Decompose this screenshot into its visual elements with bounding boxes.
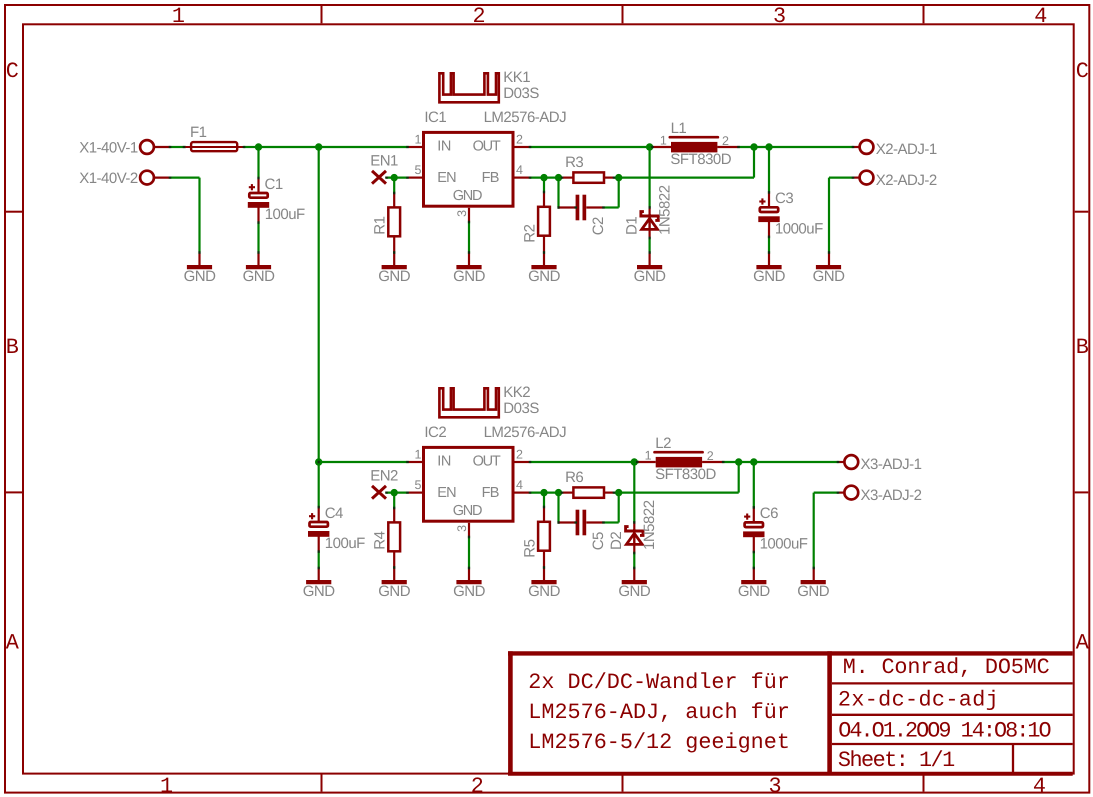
wire input rail — [259, 146, 408, 148]
svg-text:SFT830D: SFT830D — [670, 151, 731, 168]
ground GND (D2) — [633, 568, 635, 580]
inductor L2 SFT830D — [637, 461, 655, 463]
wire C4 to GND — [318, 552, 320, 568]
svg-text:X3-ADJ-1: X3-ADJ-1 — [861, 456, 922, 473]
svg-text:2: 2 — [472, 4, 485, 29]
capacitor C6 1000uF — [753, 462, 755, 507]
svg-text:LM2576-ADJ, auch für: LM2576-ADJ, auch für — [528, 700, 790, 725]
svg-text:X2-ADJ-1: X2-ADJ-1 — [876, 141, 937, 158]
svg-text:1: 1 — [660, 133, 667, 147]
connector X2-ADJ-1 — [853, 146, 860, 148]
frame row ticks right — [1075, 211, 1089, 213]
fuse F1 — [191, 142, 237, 151]
junction node EN2/R4 — [391, 489, 398, 496]
svg-text:C6: C6 — [760, 505, 778, 522]
svg-text:D1: D1 — [623, 217, 640, 235]
svg-text:2: 2 — [516, 133, 523, 147]
ground GND (C3) — [768, 253, 770, 265]
svg-text:2x DC/DC-Wandler für: 2x DC/DC-Wandler für — [528, 670, 790, 695]
svg-text:3: 3 — [768, 774, 781, 797]
svg-text:X1-40V-1: X1-40V-1 — [79, 139, 138, 156]
svg-text:R3: R3 — [565, 154, 583, 171]
svg-text:O4.O1.2OO9 14:O8:1O: O4.O1.2OO9 14:O8:1O — [838, 719, 1050, 744]
svg-text:GND: GND — [243, 268, 276, 285]
svg-text:R1: R1 — [371, 216, 388, 234]
frame row ticks left — [6, 211, 22, 213]
wire C3 to GND — [768, 237, 770, 253]
ground GND (X2-ADJ-2) — [828, 253, 830, 265]
junction node lower feed — [315, 458, 322, 465]
junction node EN1/R1 — [391, 174, 398, 181]
wire F1 to node — [244, 146, 259, 148]
resistor R2 — [543, 178, 545, 192]
svg-text:LM2576-ADJ: LM2576-ADJ — [484, 424, 567, 441]
svg-text:R6: R6 — [565, 469, 583, 486]
inductor L1 SFT830D — [653, 146, 672, 148]
svg-text:2: 2 — [471, 774, 484, 797]
svg-text:R2: R2 — [521, 224, 538, 242]
frame column ticks bottom — [321, 775, 323, 792]
svg-text:D03S: D03S — [503, 85, 539, 102]
wire OUT rail — [515, 146, 531, 148]
svg-text:GND: GND — [453, 583, 486, 600]
svg-text:1000uF: 1000uF — [760, 536, 808, 553]
wire X3-ADJ-2 to GND — [814, 492, 838, 494]
svg-text:IC1: IC1 — [424, 109, 446, 126]
ground GND (X3-ADJ-2) — [813, 568, 815, 580]
junction node C2 tap — [555, 174, 562, 181]
svg-text:GND: GND — [618, 583, 651, 600]
svg-text:C: C — [6, 59, 19, 84]
wire X1-40V-2 to GND — [170, 177, 200, 179]
svg-text:C2: C2 — [590, 217, 607, 235]
wire R6 to lower OUT rail — [614, 492, 739, 494]
svg-text:FB: FB — [482, 485, 499, 501]
svg-text:F1: F1 — [190, 124, 207, 141]
svg-text:KK2: KK2 — [503, 384, 530, 401]
svg-text:OUT: OUT — [473, 138, 501, 154]
svg-text:EN2: EN2 — [370, 468, 398, 485]
connector X2-ADJ-2 — [860, 171, 874, 185]
capacitor C5 — [557, 493, 559, 523]
svg-text:3: 3 — [773, 4, 786, 29]
wire D2 to GND — [633, 553, 635, 568]
svg-text:GND: GND — [797, 583, 830, 600]
svg-text:GND: GND — [528, 583, 561, 600]
svg-text:X1-40V-2: X1-40V-2 — [79, 170, 138, 187]
svg-text:GND: GND — [634, 268, 667, 285]
wire C1 to GND — [257, 223, 259, 253]
svg-text:EN: EN — [437, 170, 456, 186]
ground GND (X1-40V-2) — [198, 253, 200, 265]
svg-text:3: 3 — [455, 525, 469, 532]
svg-text:SFT830D: SFT830D — [655, 466, 716, 483]
svg-text:1: 1 — [160, 774, 173, 797]
wire lower input rail — [319, 461, 408, 463]
junction node R6/C5 right — [615, 489, 622, 496]
svg-text:1000uF: 1000uF — [775, 221, 823, 238]
resistor R3 — [562, 177, 573, 179]
svg-text:GND: GND — [378, 268, 411, 285]
svg-text:C4: C4 — [325, 505, 343, 522]
svg-text:A: A — [6, 631, 20, 656]
svg-text:1: 1 — [415, 448, 422, 462]
svg-text:1N5822: 1N5822 — [641, 500, 658, 550]
capacitor C3 1000uF — [768, 147, 770, 192]
wire vertical feed to lower circuit — [318, 147, 320, 462]
junction node C6 tap — [750, 458, 757, 465]
svg-text:IN: IN — [437, 138, 451, 154]
pin end markers — [169, 146, 172, 148]
ground GND (R2) — [531, 265, 556, 269]
connector X3-ADJ-2 — [844, 486, 858, 500]
junction node FB sense on lower OUT rail — [735, 458, 742, 465]
svg-text:2x-dc-dc-adj: 2x-dc-dc-adj — [838, 688, 999, 713]
svg-text:5: 5 — [415, 163, 422, 177]
svg-text:FB: FB — [482, 170, 499, 186]
svg-text:B: B — [6, 335, 19, 360]
svg-text:X3-ADJ-2: X3-ADJ-2 — [861, 487, 922, 504]
capacitor C1 100uF — [257, 147, 259, 178]
svg-text:D2: D2 — [608, 532, 625, 550]
svg-text:LM2576-5/12 geeignet: LM2576-5/12 geeignet — [528, 730, 790, 755]
wire lower FB net — [515, 492, 531, 494]
wire lower OUT rail — [515, 461, 531, 463]
svg-text:1N5822: 1N5822 — [657, 185, 674, 235]
junction node C3 tap — [765, 143, 772, 150]
svg-text:OUT: OUT — [473, 453, 501, 469]
svg-text:GND: GND — [378, 583, 411, 600]
svg-text:100uF: 100uF — [325, 535, 365, 552]
svg-text:EN1: EN1 — [370, 153, 398, 170]
junction node D2 tap — [631, 458, 638, 465]
svg-text:GND: GND — [738, 583, 771, 600]
capacitor C4 100uF — [318, 462, 320, 507]
svg-text:C3: C3 — [775, 190, 793, 207]
junction node R5 tap — [540, 489, 547, 496]
svg-text:LM2576-ADJ: LM2576-ADJ — [484, 109, 567, 126]
svg-text:C1: C1 — [265, 176, 283, 193]
resistor R4 — [393, 493, 395, 508]
junction node D1 tap — [646, 143, 653, 150]
svg-text:L1: L1 — [671, 120, 687, 137]
ground GND (C6) — [753, 568, 755, 580]
svg-text:2: 2 — [722, 134, 729, 148]
connector X3-ADJ-1 — [838, 461, 845, 463]
svg-text:R4: R4 — [371, 531, 388, 549]
diode D2 1N5822 — [633, 462, 635, 522]
svg-text:4: 4 — [516, 163, 523, 177]
title block row dividers — [832, 682, 1073, 684]
svg-text:GND: GND — [753, 268, 786, 285]
op-amp/regulator IC1 LM2576-ADJ — [408, 146, 424, 148]
frame column ticks top — [321, 6, 323, 23]
svg-text:1: 1 — [645, 448, 652, 462]
svg-text:1: 1 — [415, 133, 422, 147]
svg-text:GND: GND — [453, 268, 486, 285]
wire FB net — [515, 177, 531, 179]
svg-text:L2: L2 — [655, 435, 671, 452]
wire C6 to GND — [753, 552, 755, 568]
ground GND (IC2 pin 3) — [468, 523, 470, 537]
svg-text:GND: GND — [813, 268, 846, 285]
junction node R3/C2 right — [615, 174, 622, 181]
svg-text:M. Conrad, DO5MC: M. Conrad, DO5MC — [843, 655, 1050, 680]
ground GND (IC1 pin 3) — [468, 208, 470, 222]
svg-text:EN: EN — [437, 485, 456, 501]
resistor R1 — [393, 178, 395, 193]
junction node FB sense on OUT rail — [750, 143, 757, 150]
svg-text:X2-ADJ-2: X2-ADJ-2 — [876, 172, 937, 189]
resistor R5 — [543, 493, 545, 507]
svg-text:A: A — [1076, 631, 1090, 656]
ground GND (R5) — [531, 580, 556, 584]
heatsink KK1 D03S — [439, 73, 498, 102]
svg-text:D03S: D03S — [503, 400, 539, 417]
ground GND (C4) — [318, 568, 320, 580]
svg-text:KK1: KK1 — [503, 69, 530, 86]
resistor R6 — [562, 492, 573, 494]
wire L1 to output — [739, 146, 854, 148]
ground GND (C1) — [257, 253, 259, 265]
svg-text:Sheet: 1/1: Sheet: 1/1 — [838, 748, 955, 773]
wire X1-40V-1 to F1 — [170, 146, 186, 148]
svg-text:2: 2 — [516, 448, 523, 462]
svg-text:R5: R5 — [521, 539, 538, 557]
svg-text:IN: IN — [437, 453, 451, 469]
svg-text:GND: GND — [303, 583, 336, 600]
capacitor C2 — [557, 178, 559, 208]
svg-text:2: 2 — [707, 449, 714, 463]
diode D1 1N5822 — [648, 147, 650, 207]
svg-text:IC2: IC2 — [424, 424, 446, 441]
junction node R2 tap — [540, 174, 547, 181]
wire R3 to OUT rail — [614, 177, 754, 179]
junction node vertical feed tap — [315, 143, 322, 150]
wire L2 to output — [723, 461, 838, 463]
svg-text:GND: GND — [528, 268, 561, 285]
title block border — [508, 651, 1073, 655]
wire D1 to GND — [648, 238, 650, 253]
svg-text:5: 5 — [415, 478, 422, 492]
ground GND (D1) — [648, 253, 650, 265]
svg-text:3: 3 — [455, 210, 469, 217]
junction node C1 tap — [255, 143, 262, 150]
svg-text:C5: C5 — [590, 532, 607, 550]
svg-text:4: 4 — [1033, 774, 1046, 797]
ground GND (R1) — [382, 265, 407, 269]
svg-text:100uF: 100uF — [265, 206, 305, 223]
svg-text:1: 1 — [172, 4, 185, 29]
svg-text:4: 4 — [516, 478, 523, 492]
svg-text:GND: GND — [184, 268, 217, 285]
svg-text:B: B — [1076, 335, 1089, 360]
ground GND (R4) — [382, 580, 407, 584]
junction node C5 tap — [555, 489, 562, 496]
svg-text:4: 4 — [1034, 4, 1047, 29]
op-amp/regulator IC2 LM2576-ADJ — [408, 461, 424, 463]
svg-text:GND: GND — [453, 188, 482, 204]
wire X2-ADJ-2 to GND — [829, 177, 853, 179]
svg-text:C: C — [1076, 59, 1089, 84]
heatsink KK2 D03S — [439, 388, 498, 417]
svg-text:GND: GND — [453, 503, 482, 519]
